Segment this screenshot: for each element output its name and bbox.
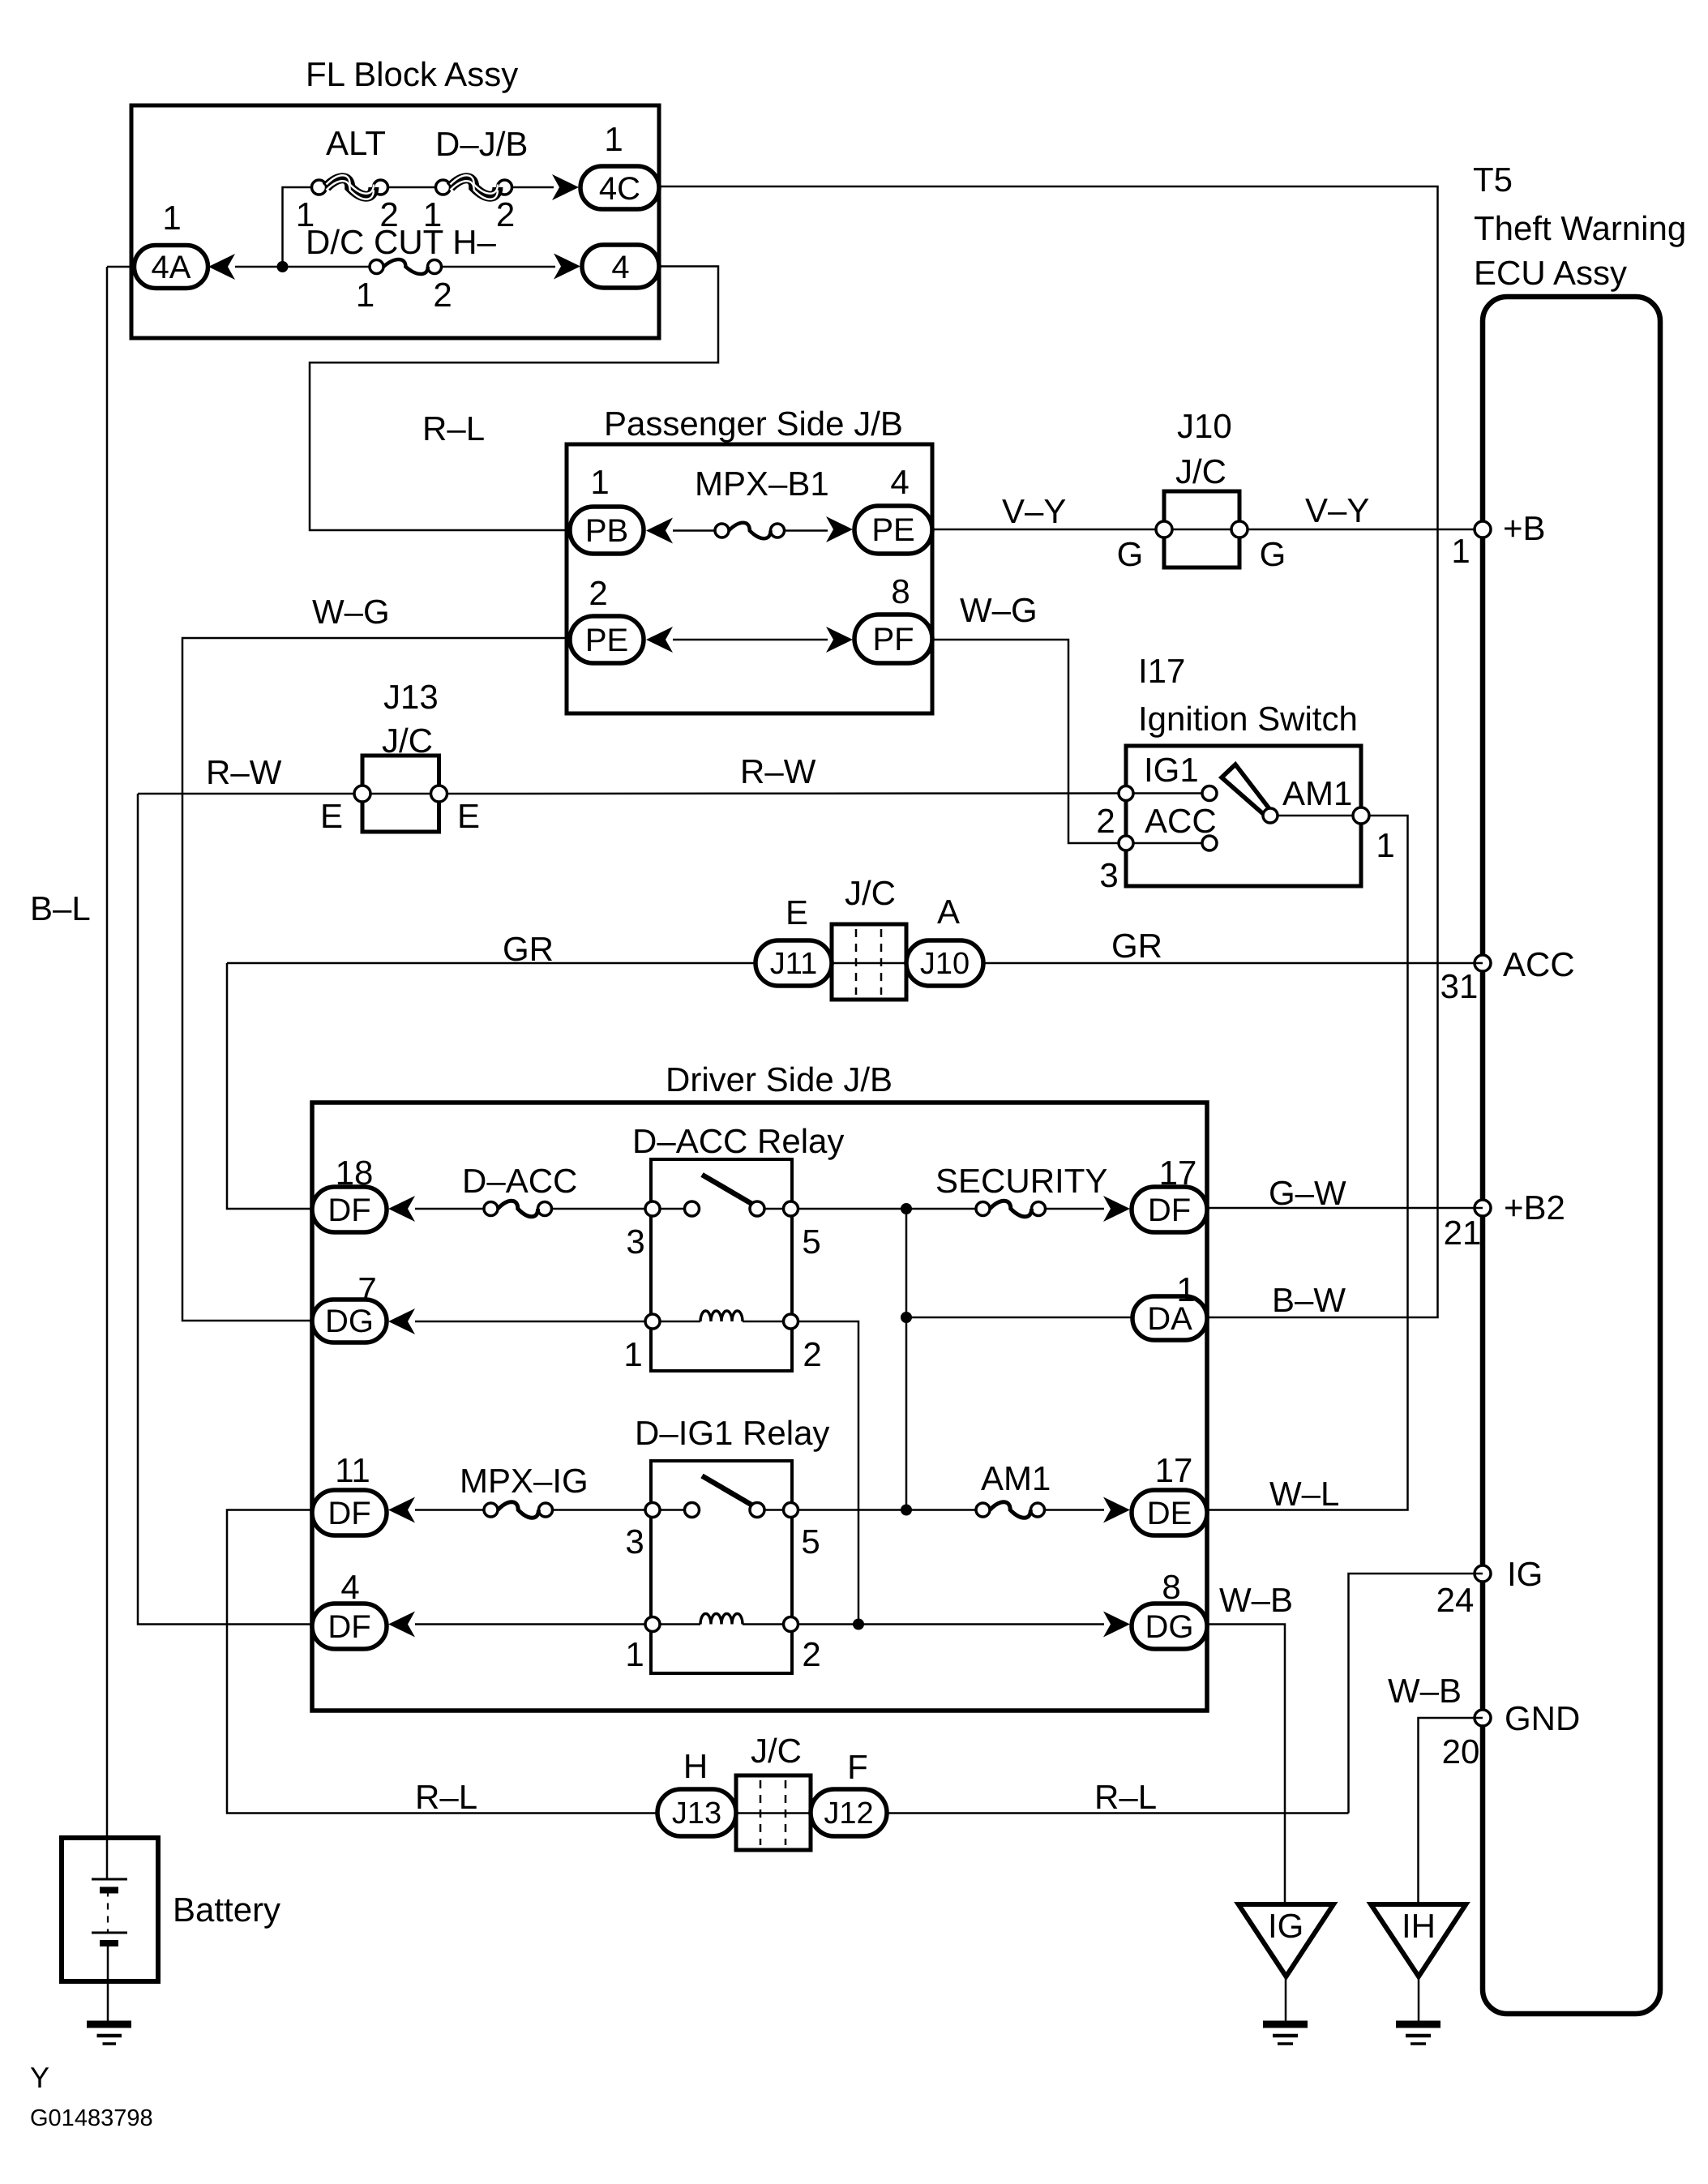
connector PE 2 bbox=[570, 616, 644, 663]
wire R-L row right bbox=[887, 1812, 1349, 1814]
label 1 of ignition bbox=[1376, 826, 1394, 864]
svg-text:I17: I17 bbox=[1138, 652, 1185, 690]
terminal E right of J13 J/C bbox=[431, 786, 481, 835]
svg-text:MPX–B1: MPX–B1 bbox=[695, 465, 829, 503]
label AM1 switch bbox=[1282, 774, 1352, 812]
label R-L right bbox=[1094, 1778, 1157, 1816]
ignition switch lever bbox=[1222, 764, 1273, 818]
label IG1 bbox=[1144, 751, 1199, 789]
wire V-Y from PE4 to J10 J/C bbox=[932, 529, 1157, 531]
label IG terminal bbox=[1507, 1555, 1543, 1593]
label J/C of J13 bbox=[382, 722, 433, 760]
connector J10 oval bbox=[906, 940, 983, 986]
D-ACC relay pin 5 bbox=[784, 1201, 821, 1261]
svg-text:1: 1 bbox=[623, 1335, 642, 1373]
wire IG terminal to R-L row bbox=[1349, 1574, 1483, 1814]
connector DG 7 bbox=[312, 1300, 387, 1343]
wire ALT to D-J/B bbox=[388, 186, 436, 189]
wire D/C CUT to 4 arrow bbox=[442, 266, 556, 268]
wire G-W from DF17 to +B2 bbox=[1207, 1207, 1483, 1210]
label W-B upper bbox=[1219, 1581, 1293, 1619]
wire through J13-J12 J/C bbox=[736, 1812, 811, 1814]
label 1 above 4A bbox=[162, 199, 181, 237]
svg-text:B–L: B–L bbox=[30, 889, 91, 927]
Passenger Side J/B title bbox=[604, 405, 903, 443]
junction dot DG8 row bbox=[853, 1619, 864, 1630]
FL Block Assy title bbox=[306, 55, 518, 93]
arrow into DF4 bbox=[388, 1612, 415, 1638]
arrow into DG8 bbox=[1103, 1612, 1130, 1638]
label R-W left bbox=[206, 753, 282, 791]
arrow into DE17 bbox=[1103, 1497, 1130, 1523]
label ECU Assy bbox=[1474, 254, 1627, 292]
connector 4 bbox=[582, 245, 659, 288]
svg-text:J/C: J/C bbox=[751, 1732, 802, 1770]
svg-text:IH: IH bbox=[1402, 1907, 1436, 1945]
triangle connector IG bbox=[1239, 1904, 1333, 1976]
svg-text:1: 1 bbox=[625, 1635, 644, 1673]
wire SECURITY to DF17 arrow bbox=[1046, 1208, 1105, 1210]
svg-text:J12: J12 bbox=[824, 1796, 873, 1831]
connector J12 oval bbox=[811, 1789, 887, 1836]
svg-text:W–B: W–B bbox=[1388, 1672, 1462, 1710]
label 17 above DF bbox=[1159, 1154, 1197, 1192]
svg-text:R–L: R–L bbox=[415, 1778, 477, 1816]
wire R-W J13 to ignition pin 2 bbox=[447, 792, 1119, 794]
svg-text:V–Y: V–Y bbox=[1002, 492, 1066, 530]
wire R-W row bbox=[138, 793, 354, 795]
svg-text:2: 2 bbox=[802, 1635, 820, 1673]
D-IG1 relay fixed contact bbox=[685, 1503, 700, 1518]
triangle connector IH bbox=[1371, 1904, 1466, 1976]
arrow into PE 2 bbox=[646, 627, 673, 653]
label 17 above DE bbox=[1155, 1451, 1193, 1489]
label W-L bbox=[1269, 1475, 1339, 1513]
svg-text:FL Block Assy: FL Block Assy bbox=[306, 55, 518, 93]
svg-text:F: F bbox=[847, 1748, 868, 1786]
label 31 bbox=[1440, 967, 1479, 1005]
connector PB bbox=[570, 507, 644, 554]
label ACC terminal bbox=[1503, 945, 1575, 983]
label 18 above DF bbox=[336, 1154, 374, 1192]
svg-text:DF: DF bbox=[327, 1496, 370, 1531]
junction dot row3 bus bbox=[901, 1505, 912, 1516]
wire D-J/B to 4C arrow bbox=[512, 186, 554, 189]
D-ACC relay fixed contact bbox=[685, 1201, 700, 1216]
ground IH bbox=[1396, 2024, 1440, 2044]
wire W-G from PF8 to ignition pin 3 bbox=[932, 640, 1119, 843]
Theft Warning ECU Assy box T5 bbox=[1483, 297, 1660, 2014]
connector DE 17 bbox=[1132, 1490, 1207, 1535]
terminal E left of J13 J/C bbox=[320, 786, 370, 835]
connector 4C bbox=[580, 166, 659, 209]
pin 1 of ALT fuse bbox=[296, 195, 315, 233]
svg-text:4: 4 bbox=[340, 1568, 359, 1606]
svg-text:24: 24 bbox=[1436, 1581, 1475, 1619]
svg-text:W–G: W–G bbox=[312, 593, 390, 631]
svg-text:5: 5 bbox=[802, 1223, 820, 1261]
FL Block Assy box bbox=[131, 105, 659, 338]
label D-ACC Relay bbox=[632, 1122, 844, 1160]
svg-text:R–W: R–W bbox=[206, 753, 282, 791]
label V-Y left bbox=[1002, 492, 1066, 530]
svg-text:J10: J10 bbox=[1177, 407, 1232, 445]
svg-text:PF: PF bbox=[872, 622, 914, 657]
wire MPX-B1 fuse to PE4 arrow bbox=[785, 529, 828, 532]
svg-text:DG: DG bbox=[1145, 1609, 1194, 1645]
terminal G left of J10 J/C bbox=[1117, 521, 1172, 573]
connector DF 18 bbox=[312, 1187, 387, 1232]
svg-text:18: 18 bbox=[336, 1154, 374, 1192]
label W-G left bbox=[312, 593, 390, 631]
wire moving contact to pin5 bbox=[764, 1208, 784, 1210]
svg-text:7: 7 bbox=[357, 1270, 376, 1308]
label R-L top bbox=[422, 409, 485, 448]
label D-IG1 Relay bbox=[635, 1414, 829, 1452]
D-ACC relay pin 2 bbox=[784, 1314, 822, 1373]
fuse D-J/B (fusible link) bbox=[436, 175, 512, 199]
label W-B lower bbox=[1388, 1672, 1462, 1710]
connector DF 4 bbox=[312, 1604, 387, 1649]
wire AM1 pin1 down to DE row bbox=[1207, 816, 1408, 1510]
label E above J11 bbox=[786, 893, 808, 931]
label B-W bbox=[1272, 1281, 1346, 1319]
svg-text:PB: PB bbox=[585, 513, 628, 549]
svg-text:IG: IG bbox=[1268, 1907, 1303, 1945]
ignition pin 2 bbox=[1119, 786, 1133, 801]
connector DA 1 bbox=[1132, 1296, 1207, 1340]
wire GR from column to J11 bbox=[227, 962, 756, 965]
svg-text:5: 5 bbox=[801, 1522, 820, 1561]
arrow into 4A bbox=[208, 254, 235, 280]
svg-text:D–ACC Relay: D–ACC Relay bbox=[632, 1122, 844, 1160]
label H above J13 bbox=[683, 1747, 708, 1785]
wire 4A to B-L corner bbox=[107, 266, 135, 268]
D-IG1 relay box bbox=[651, 1461, 792, 1673]
svg-text:PE: PE bbox=[871, 512, 914, 548]
svg-text:G: G bbox=[1117, 535, 1144, 573]
svg-text:D–ACC: D–ACC bbox=[462, 1162, 577, 1200]
svg-text:E: E bbox=[786, 893, 808, 931]
svg-text:J10: J10 bbox=[920, 947, 970, 981]
label 8 above DG bbox=[1162, 1568, 1180, 1606]
svg-text:1: 1 bbox=[1376, 826, 1394, 864]
wire pin2 to DG8 arrow bbox=[798, 1623, 1105, 1625]
svg-text:1: 1 bbox=[162, 199, 181, 237]
svg-text:ACC: ACC bbox=[1145, 802, 1217, 840]
wire AM1 fuse to DE arrow bbox=[1045, 1509, 1105, 1511]
label 21 bbox=[1444, 1214, 1482, 1252]
svg-text:17: 17 bbox=[1155, 1451, 1193, 1489]
label D/C CUT H- bbox=[306, 223, 497, 261]
arrow into PB bbox=[646, 518, 673, 544]
arrow into 4C bbox=[552, 174, 579, 200]
label J10 bbox=[1177, 407, 1232, 445]
svg-text:ACC: ACC bbox=[1503, 945, 1575, 983]
wire B-L vertical to battery bbox=[106, 267, 109, 1879]
Driver Side J/B title bbox=[666, 1060, 893, 1098]
svg-text:H: H bbox=[683, 1747, 708, 1785]
svg-text:G: G bbox=[1260, 535, 1286, 573]
svg-text:11: 11 bbox=[335, 1451, 370, 1489]
wire GND terminal to IH triangle bbox=[1419, 1718, 1483, 1904]
arrow into DF11 bbox=[388, 1497, 415, 1523]
svg-text:Y: Y bbox=[30, 2061, 49, 2094]
ignition pivot AM1 bbox=[1263, 808, 1278, 823]
label Y bbox=[30, 2061, 49, 2094]
D-ACC relay pin 1 bbox=[623, 1314, 660, 1373]
wire W-B from DG8 down to IG triangle bbox=[1207, 1625, 1285, 1905]
label W-G right bbox=[960, 591, 1038, 629]
wire through J11-J10 J/C bbox=[832, 962, 906, 965]
svg-text:2: 2 bbox=[1096, 802, 1115, 840]
label J/C of J11-J10 bbox=[845, 874, 896, 912]
label MPX-B1 bbox=[695, 465, 829, 503]
arrow into DF17 bbox=[1103, 1196, 1130, 1222]
wire pivot to pin1 bbox=[1278, 815, 1354, 817]
ground battery bbox=[87, 2024, 131, 2044]
svg-text:D/C CUT H–: D/C CUT H– bbox=[306, 223, 497, 261]
D-IG1 relay coil bbox=[660, 1614, 784, 1625]
svg-text:Ignition Switch: Ignition Switch bbox=[1138, 700, 1358, 738]
svg-text:4A: 4A bbox=[152, 250, 191, 285]
arrow into PE 4 bbox=[826, 516, 853, 542]
connector DG 8 bbox=[1132, 1604, 1207, 1649]
svg-text:R–L: R–L bbox=[422, 409, 485, 448]
svg-text:4C: 4C bbox=[599, 171, 640, 207]
ignition switch I17 box bbox=[1126, 746, 1361, 886]
svg-text:J13: J13 bbox=[383, 678, 439, 716]
wire pin2 to IG1 contact bbox=[1133, 792, 1202, 794]
svg-text:8: 8 bbox=[1162, 1568, 1180, 1606]
wire moving contact to pin5 relay2 bbox=[764, 1509, 784, 1511]
svg-text:Theft Warning: Theft Warning bbox=[1474, 209, 1686, 247]
svg-text:J13: J13 bbox=[672, 1796, 721, 1831]
fuse ALT (fusible link) bbox=[312, 175, 388, 199]
pin 1 of D-J/B fuse bbox=[423, 195, 442, 233]
svg-text:2: 2 bbox=[589, 574, 607, 612]
svg-text:+B: +B bbox=[1503, 509, 1546, 547]
connector J13 oval bbox=[657, 1789, 736, 1836]
label +B2 bbox=[1504, 1188, 1565, 1227]
svg-text:IG: IG bbox=[1507, 1555, 1543, 1593]
svg-text:+B2: +B2 bbox=[1504, 1188, 1565, 1227]
wire V-Y from J10 J/C to +B bbox=[1248, 529, 1483, 531]
svg-text:1: 1 bbox=[1451, 532, 1470, 570]
Driver Side J/B box bbox=[312, 1103, 1207, 1711]
label GND bbox=[1505, 1699, 1580, 1737]
label Battery bbox=[173, 1891, 280, 1929]
svg-text:17: 17 bbox=[1159, 1154, 1197, 1192]
terminal ACC pin 31 bbox=[1475, 955, 1491, 971]
svg-text:J11: J11 bbox=[770, 947, 817, 981]
svg-text:D–J/B: D–J/B bbox=[435, 125, 528, 163]
ground IG bbox=[1263, 2024, 1308, 2044]
label D-J/B bbox=[435, 125, 528, 163]
wire R-W column to DF4 bbox=[138, 794, 312, 1625]
pin 2 of D-J/B fuse bbox=[496, 195, 515, 233]
pin 1 of D/C CUT fuse bbox=[356, 276, 375, 314]
label D-ACC fuse bbox=[462, 1162, 577, 1200]
svg-text:1: 1 bbox=[1176, 1270, 1195, 1308]
arrow into PF 8 bbox=[826, 627, 853, 653]
label V-Y right bbox=[1305, 491, 1369, 529]
svg-text:G–W: G–W bbox=[1269, 1174, 1346, 1212]
label Ignition Switch bbox=[1138, 700, 1358, 738]
D-ACC relay blade bbox=[702, 1175, 755, 1205]
label A above J10 bbox=[937, 893, 960, 931]
svg-text:J/C: J/C bbox=[382, 722, 433, 760]
wire PB arrow to MPX-B1 fuse bbox=[673, 529, 715, 532]
label Theft Warning bbox=[1474, 209, 1686, 247]
wire B-W from DA up to 4C bbox=[659, 186, 1438, 1317]
svg-text:G01483798: G01483798 bbox=[30, 2105, 153, 2131]
wire pin3 to fixed contact bbox=[660, 1208, 685, 1210]
label G-W bbox=[1269, 1174, 1346, 1212]
label GR left bbox=[503, 930, 554, 968]
svg-text:DF: DF bbox=[327, 1609, 370, 1645]
connector PE 4 bbox=[854, 506, 932, 554]
svg-text:R–L: R–L bbox=[1094, 1778, 1157, 1816]
svg-text:GR: GR bbox=[1111, 927, 1162, 965]
terminal IG pin 24 bbox=[1475, 1565, 1491, 1582]
wire W-G from PE2 to DG7 bbox=[182, 638, 570, 1321]
label 1 above PB bbox=[590, 463, 609, 501]
label 1 above DA bbox=[1176, 1270, 1195, 1308]
svg-text:1: 1 bbox=[356, 276, 375, 314]
label 2 above PE bbox=[589, 574, 607, 612]
svg-text:1: 1 bbox=[590, 463, 609, 501]
label 4 above PE bbox=[890, 463, 909, 501]
battery box bbox=[62, 1838, 158, 1981]
svg-text:2: 2 bbox=[496, 195, 515, 233]
label 2 of ignition bbox=[1096, 802, 1115, 840]
junction dot FL block bbox=[277, 261, 289, 272]
label J/C of J10 bbox=[1175, 452, 1226, 490]
wire bus to DA bbox=[906, 1317, 1132, 1319]
terminal +B pin 1 bbox=[1475, 521, 1491, 537]
ignition IG1 contact bbox=[1202, 786, 1217, 801]
label 24 bbox=[1436, 1581, 1475, 1619]
D-ACC relay moving contact bbox=[750, 1201, 764, 1216]
label 1 of +B bbox=[1451, 532, 1470, 570]
svg-text:GR: GR bbox=[503, 930, 554, 968]
D-IG1 relay blade bbox=[702, 1476, 755, 1507]
ignition pin 1 bbox=[1353, 807, 1369, 824]
wire DF11 arrow to MPX-IG fuse bbox=[415, 1509, 484, 1511]
svg-text:DF: DF bbox=[327, 1193, 370, 1228]
label 7 above DG bbox=[357, 1270, 376, 1308]
junction connector J/C box of J11-J10 bbox=[832, 924, 906, 1000]
wire R-L from connector 4 to PB bbox=[310, 267, 718, 531]
fuse MPX-IG bbox=[484, 1502, 553, 1518]
wire pin5 to AM1 fuse bbox=[798, 1509, 977, 1511]
svg-text:GND: GND bbox=[1505, 1699, 1580, 1737]
wire GR column down to DF18 bbox=[227, 963, 312, 1209]
fuse D-ACC bbox=[484, 1201, 552, 1217]
D-ACC relay box bbox=[651, 1159, 792, 1371]
svg-text:DE: DE bbox=[1147, 1496, 1192, 1531]
svg-text:E: E bbox=[457, 797, 480, 835]
svg-text:2: 2 bbox=[803, 1335, 821, 1373]
fuse AM1 bbox=[976, 1502, 1045, 1518]
junction dot DA bus bbox=[901, 1312, 912, 1323]
svg-text:W–B: W–B bbox=[1219, 1581, 1293, 1619]
D-IG1 relay moving contact bbox=[750, 1503, 764, 1518]
wire D-ACC fuse to relay pin 3 bbox=[552, 1208, 646, 1210]
wire IH triangle to ground bbox=[1418, 1976, 1420, 2023]
svg-text:8: 8 bbox=[891, 572, 910, 610]
wire GR from J10 to ACC bbox=[983, 962, 1483, 965]
wire pin2 down to DG8 row bbox=[798, 1321, 859, 1625]
junction connector J10 J/C box bbox=[1164, 491, 1239, 567]
label T5 bbox=[1473, 161, 1513, 199]
label SECURITY bbox=[935, 1162, 1107, 1200]
D-IG1 relay pin 1 bbox=[625, 1617, 660, 1674]
Passenger Side J/B box bbox=[567, 444, 932, 713]
wire DF18 arrow to D-ACC fuse bbox=[415, 1208, 484, 1210]
label ACC switch bbox=[1145, 802, 1217, 840]
svg-text:V–Y: V–Y bbox=[1305, 491, 1369, 529]
battery cell plates bbox=[92, 1879, 127, 1943]
pin 2 of ALT fuse bbox=[379, 195, 398, 233]
label 3 of ignition bbox=[1099, 856, 1118, 894]
vertical bus wire x1118 bbox=[905, 1209, 908, 1510]
connector DF 17 bbox=[1132, 1187, 1207, 1232]
svg-text:4: 4 bbox=[611, 250, 629, 285]
fuse MPX-B1 bbox=[715, 523, 785, 539]
label +B bbox=[1503, 509, 1546, 547]
svg-text:3: 3 bbox=[625, 1522, 644, 1561]
svg-text:IG1: IG1 bbox=[1144, 751, 1199, 789]
svg-text:W–G: W–G bbox=[960, 591, 1038, 629]
svg-text:Battery: Battery bbox=[173, 1891, 280, 1929]
connector 4A bbox=[135, 246, 208, 289]
svg-text:SECURITY: SECURITY bbox=[935, 1162, 1107, 1200]
connector PF 8 bbox=[854, 615, 932, 663]
svg-text:3: 3 bbox=[1099, 856, 1118, 894]
svg-text:ALT: ALT bbox=[326, 124, 386, 162]
label R-L left bbox=[415, 1778, 477, 1816]
wire IG triangle to ground bbox=[1285, 1976, 1287, 2023]
label MPX-IG bbox=[460, 1462, 589, 1500]
label I17 bbox=[1138, 652, 1185, 690]
arrow into DG7 bbox=[388, 1308, 415, 1334]
D-IG1 relay pin 3 bbox=[625, 1503, 660, 1561]
wire R-L row left bbox=[227, 1510, 657, 1814]
label 20 bbox=[1442, 1732, 1480, 1771]
svg-text:20: 20 bbox=[1442, 1732, 1480, 1771]
wire DF4 arrow to relay2 pin 1 bbox=[415, 1623, 645, 1625]
D-IG1 relay pin 5 bbox=[784, 1503, 820, 1561]
fuse SECURITY bbox=[976, 1201, 1046, 1217]
svg-text:E: E bbox=[320, 797, 343, 835]
label F above J12 bbox=[847, 1748, 868, 1786]
svg-text:31: 31 bbox=[1440, 967, 1479, 1005]
fuse D/C CUT H- bbox=[370, 259, 442, 274]
svg-text:Driver Side J/B: Driver Side J/B bbox=[666, 1060, 893, 1098]
label G01483798 bbox=[30, 2105, 153, 2131]
D-IG1 relay pin 2 bbox=[784, 1617, 821, 1674]
wire pin3 to fixed contact 2 bbox=[660, 1509, 685, 1511]
svg-text:J/C: J/C bbox=[845, 874, 896, 912]
svg-text:3: 3 bbox=[626, 1223, 644, 1261]
label AM1 fuse bbox=[981, 1459, 1051, 1497]
svg-text:J/C: J/C bbox=[1175, 452, 1226, 490]
label 11 above DF bbox=[335, 1451, 370, 1489]
label ALT bbox=[326, 124, 386, 162]
wire PE2 arrow to PF8 arrow bbox=[673, 639, 828, 641]
